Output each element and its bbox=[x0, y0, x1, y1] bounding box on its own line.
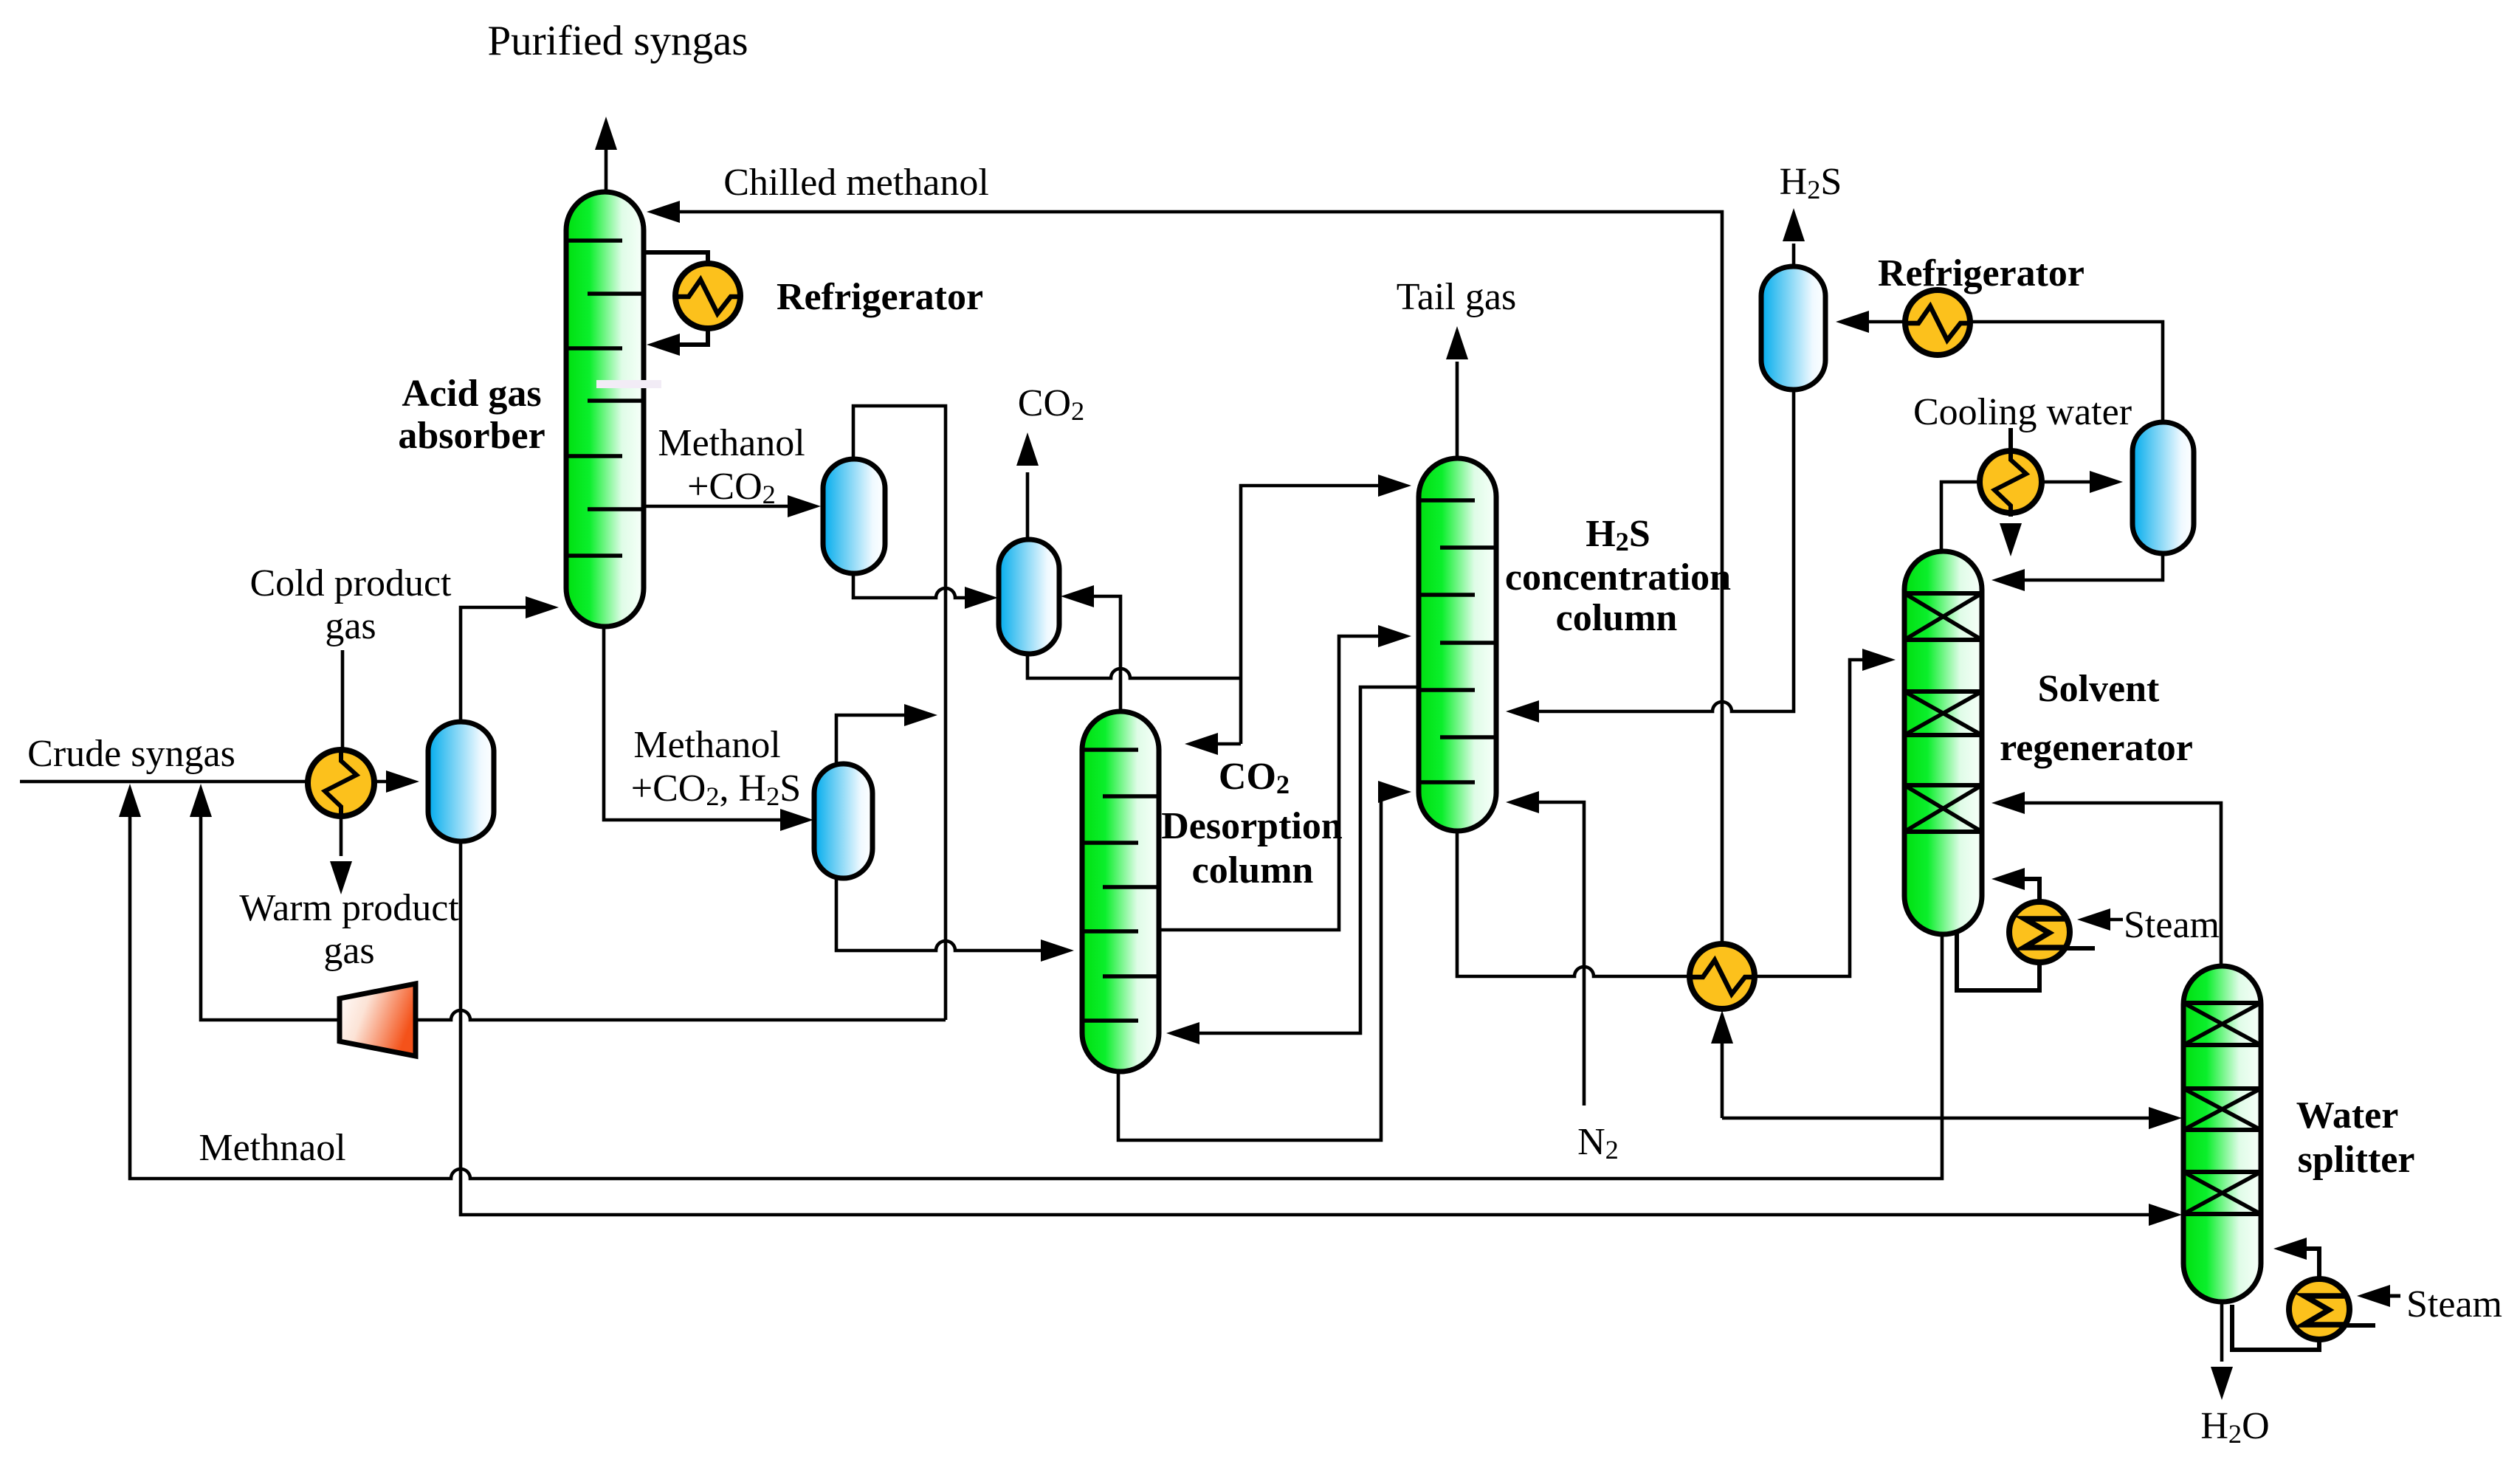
arrowhead: return into CO2 column right at y1400 bbox=[1166, 1022, 1199, 1044]
wire: V3 bottoms with hop over x1281 into CO2 column bbox=[836, 878, 1065, 951]
wire: regenerator reboiler condensate stub bbox=[2059, 946, 2095, 951]
arrowhead: methanol vapour into regenerator right at y1088 bbox=[1991, 792, 2025, 814]
arrowhead: CO2 column overhead into V2 bbox=[1061, 585, 1094, 607]
arrowhead: crude syngas into cold separator bbox=[386, 770, 419, 793]
arrowhead: H2O product down bbox=[2211, 1367, 2233, 1400]
svg-text:Warm product: Warm product bbox=[239, 887, 459, 929]
svg-text:Cooling water: Cooling water bbox=[1913, 391, 2132, 433]
wire: tail gas from H2S column top bbox=[1456, 362, 1459, 457]
wire: methanol+CO2 side draw to flash drum V1 bbox=[644, 505, 812, 508]
svg-text:Desorption: Desorption bbox=[1161, 805, 1343, 847]
arrowhead: cooling water down bbox=[2000, 523, 2022, 556]
wire: regenerator reboiler liquid draw bbox=[1957, 928, 2039, 990]
arrowhead: V3 gas joins recycle header bbox=[904, 704, 937, 726]
artifact: white dash on absorber bbox=[596, 380, 661, 388]
vessel: regenerator condenser drum bbox=[2132, 422, 2194, 553]
arrowhead: into H2S column left at y862 bbox=[1378, 625, 1411, 647]
arrowhead: chilled methanol into absorber bbox=[647, 201, 680, 223]
wire: compressor discharge to crude syngas junction riser bbox=[201, 793, 340, 1020]
arrowhead: compressed recycle into crude syngas line bbox=[190, 784, 212, 817]
arrowhead: N2 into H2S column right bbox=[1506, 791, 1539, 813]
wire: cold separator vapour to absorber bbox=[461, 607, 550, 720]
arrowhead: V3 bottoms into CO2 column bbox=[1041, 939, 1074, 962]
svg-text:Refrigerator: Refrigerator bbox=[777, 276, 983, 318]
column: CO2 desorption column bbox=[1082, 711, 1159, 1072]
wire: regenerator reboiler vapour return bbox=[2000, 879, 2039, 902]
exchanger: condenser cooling-water exchanger bbox=[1980, 451, 2042, 513]
arrowhead: into condenser drum bbox=[2090, 471, 2123, 493]
exchanger: water splitter steam reboiler bbox=[2289, 1279, 2349, 1339]
arrowhead: KO bottoms into H2S column right at y964 bbox=[1506, 700, 1539, 722]
wire: regenerator overhead to condenser exchanger bbox=[1941, 482, 1978, 551]
column: H2S concentration column bbox=[1419, 458, 1496, 831]
compressor: recycle gas compressor bbox=[340, 984, 416, 1056]
arrowhead: absorber bottoms into V3 bbox=[780, 809, 813, 831]
column: acid gas absorber bbox=[566, 192, 644, 627]
arrowhead: into water splitter left at y1646 bbox=[2149, 1204, 2182, 1226]
wire: regenerator reboiler steam inlet bbox=[2086, 918, 2123, 922]
wire: CO2 column bottoms up to H2S column bbox=[1118, 792, 1402, 1140]
svg-text:column: column bbox=[1192, 849, 1314, 891]
wire: recycle header to compressor suction with hop over x624 line bbox=[416, 1010, 946, 1020]
svg-text:Methanol: Methanol bbox=[658, 422, 805, 464]
wire: water splitter reboiler condensate stub bbox=[2338, 1323, 2375, 1328]
wire: splitter branch down to CO2 desorption column top bbox=[1194, 742, 1241, 746]
arrowhead: steam into water splitter reboiler bbox=[2357, 1285, 2390, 1307]
wire: H2S KO drum bottoms back to H2S column with hop over chilled methanol line bbox=[1515, 390, 1794, 711]
svg-text:Methnaol: Methnaol bbox=[199, 1127, 345, 1169]
wire: water splitter reboiler vapour return bbox=[2282, 1249, 2319, 1279]
arrowhead: refrigerator return into absorber bbox=[647, 334, 680, 356]
wire: water splitter reboiler liquid draw bbox=[2232, 1305, 2319, 1350]
wire: water splitter overhead to regenerator bbox=[2000, 803, 2221, 965]
exchanger: lean/rich methanol exchanger bbox=[1690, 944, 1755, 1009]
wire: branch up into lean/rich exchanger bbox=[1721, 1020, 1724, 1118]
svg-text:column: column bbox=[1556, 597, 1678, 639]
wire: water splitter reboiler steam inlet bbox=[2366, 1294, 2400, 1298]
svg-text:Crude syngas: Crude syngas bbox=[27, 733, 235, 775]
vessel: methanol+CO2 flash drum V1 bbox=[823, 459, 885, 573]
wire: lean methanol branch to water splitter feed at y1515 bbox=[1722, 1117, 2173, 1120]
wire: cold product gas into crude exchanger bbox=[341, 650, 345, 751]
arrowhead: steam into regenerator reboiler bbox=[2077, 908, 2110, 931]
arrowhead: CO2 bottoms into H2S column left at y1073 bbox=[1378, 781, 1411, 803]
vessel: H2S knock-out drum bbox=[1761, 266, 1825, 390]
arrowhead: V1 bottoms into V2 bbox=[965, 587, 998, 609]
svg-text:concentration: concentration bbox=[1505, 556, 1731, 599]
svg-text:Methanol: Methanol bbox=[633, 724, 780, 766]
exchanger: crude syngas chiller bbox=[308, 750, 374, 816]
arrowhead: CO2 product up bbox=[1016, 432, 1039, 466]
wire: N2 stripping gas into H2S column bbox=[1515, 802, 1584, 1106]
exchanger: refrigerator at absorber bbox=[675, 263, 740, 328]
svg-text:splitter: splitter bbox=[2298, 1139, 2415, 1181]
wire: rich methanol splitter: up to H2S column / down to CO2 column bbox=[1241, 486, 1402, 744]
vessel: cold product gas separator bbox=[428, 722, 494, 841]
wire: refrigerated stream from condenser drum to H2S KO drum bbox=[1844, 322, 2163, 422]
arrowhead: tail gas up bbox=[1446, 326, 1468, 359]
svg-text:Purified syngas: Purified syngas bbox=[487, 18, 748, 64]
wire: V1 bottoms with hop over x1281 to drum V2 bbox=[853, 573, 989, 598]
svg-text:regenerator: regenerator bbox=[2000, 727, 2193, 769]
svg-text:Tail gas: Tail gas bbox=[1397, 276, 1516, 318]
wire: refrigerator loop supply from absorber bbox=[644, 252, 708, 266]
svg-text:Acid gas: Acid gas bbox=[402, 373, 541, 415]
wire: CO2 column side outlet to riser x1814 bbox=[1159, 636, 1402, 930]
svg-text:Steam: Steam bbox=[2406, 1283, 2502, 1325]
wire: H2S column left outlet down to CO2 column return bbox=[1175, 687, 1419, 1033]
vessel: CO2 knock-out drum V2 bbox=[999, 539, 1059, 654]
svg-text:gas: gas bbox=[323, 930, 374, 972]
svg-text:Solvent: Solvent bbox=[2038, 668, 2160, 710]
svg-text:absorber: absorber bbox=[398, 415, 545, 457]
arrowhead: into H2S KO drum bbox=[1836, 311, 1869, 333]
wire: chilled methanol header (right corner at x2333 down to exchanger) bbox=[654, 212, 1722, 946]
arrowhead: reflux into regenerator right at y786 bbox=[1991, 569, 2025, 591]
wire: refrigerator loop return to absorber bbox=[654, 326, 708, 345]
svg-text:gas: gas bbox=[325, 605, 376, 647]
arrowhead: feed into CO2 desorption column top bbox=[1185, 733, 1218, 755]
arrowhead: reboiler vapour into water splitter right bbox=[2273, 1238, 2307, 1260]
wire: CO2 product from V2 top bbox=[1026, 472, 1030, 538]
arrowhead: cold gas into absorber bottom left bbox=[526, 596, 559, 618]
arrowhead: feed into water splitter left at y1515 bbox=[2149, 1107, 2182, 1129]
svg-text:Steam: Steam bbox=[2124, 904, 2220, 946]
wire: water splitter bottoms H2O bbox=[2220, 1303, 2224, 1362]
wire: purified syngas overhead from absorber bbox=[605, 148, 608, 193]
arrowhead: warm product gas down bbox=[330, 861, 352, 894]
wire: crude syngas main line bbox=[20, 780, 310, 784]
wire: condenser drum bottoms reflux to regenerator bbox=[2000, 553, 2163, 580]
arrowhead: reboiler vapour into regenerator right at y1191 bbox=[1991, 868, 2025, 890]
exchanger: refrigerator top right bbox=[1905, 290, 1970, 355]
wire: H2S product from KO drum top bbox=[1792, 244, 1796, 265]
wire: V3 top gas to recycle header x1281 bbox=[836, 715, 929, 762]
exchanger: solvent regenerator steam reboiler bbox=[2009, 902, 2070, 962]
wire: absorber bottoms to drum V3 bbox=[604, 628, 805, 820]
svg-text:Cold product: Cold product bbox=[250, 562, 452, 604]
wire: cold separator liquid down to water splitter at y1646 bbox=[461, 843, 2173, 1215]
wire: cooling water into condenser exchanger bbox=[2008, 428, 2013, 517]
wire: H2S column bottoms to lean/rich exchanger with hop over N2 line bbox=[1457, 660, 1887, 976]
wire: warm product gas out of crude exchanger bbox=[340, 815, 343, 856]
arrowhead: into lean/rich exchanger bottom bbox=[1711, 1010, 1733, 1044]
wire: CO2 column overhead to V2 bbox=[1069, 596, 1120, 710]
arrowhead: lean methanol joins crude syngas line bbox=[119, 784, 141, 817]
wire: lean methanol from regenerator bottoms down and long recycle to crude syngas bbox=[130, 793, 1942, 1179]
svg-text:Chilled methanol: Chilled methanol bbox=[723, 162, 989, 204]
arrowhead: purified syngas up bbox=[595, 117, 617, 150]
column: solvent regenerator (packed) bbox=[1904, 551, 1982, 934]
arrowhead: H2S product up bbox=[1783, 208, 1805, 241]
svg-text:Water: Water bbox=[2296, 1094, 2399, 1136]
svg-text:Refrigerator: Refrigerator bbox=[1878, 252, 2084, 294]
arrowhead: into solvent regenerator left at y894 bbox=[1862, 649, 1896, 671]
wire: crude syngas exchanger to cold separator bbox=[372, 780, 410, 784]
arrowhead: into flash drum V1 bbox=[788, 495, 821, 517]
vessel: methanol+CO2+H2S flash drum V3 bbox=[814, 764, 872, 878]
wire: V1 top gas up-over-down to recycle header x1281 and on to compressor bbox=[853, 406, 946, 1020]
wire: condenser exchanger to condenser drum bbox=[2043, 480, 2114, 484]
arrowhead: feed into H2S concentration column top bbox=[1378, 475, 1411, 497]
wire: V2 bottoms with hop over x1518, to splitter junction x1681 bbox=[1027, 654, 1241, 678]
column: water splitter (packed) bbox=[2183, 966, 2261, 1302]
